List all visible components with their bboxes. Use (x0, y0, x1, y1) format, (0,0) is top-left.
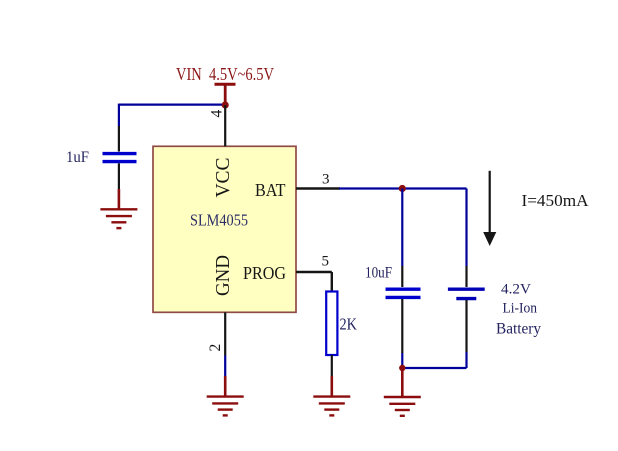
resistor R1 2K (326, 292, 337, 356)
pin 2 wire GND (224, 312, 226, 396)
wire battery to bottom net (465, 300, 467, 368)
wire C1 to ground (118, 163, 120, 209)
svg-text:PROG: PROG (243, 263, 286, 283)
wire BAT net horizontal (339, 187, 467, 189)
junction bottom net (399, 365, 405, 371)
pin 5 wire PROG (296, 272, 332, 292)
wire R1 to ground (331, 355, 333, 397)
wire to capacitor C1 (118, 104, 120, 152)
wire VIN horizontal (119, 103, 225, 105)
battery BT1 plates (448, 289, 485, 298)
current arrow (483, 171, 496, 246)
pin 3 wire BAT (296, 187, 340, 189)
svg-text:1uF: 1uF (66, 149, 89, 166)
ground GND2 (207, 397, 244, 416)
junction VIN/pin4 (222, 101, 229, 108)
junction BAT/C2 (399, 185, 406, 192)
svg-text:Li-Ion: Li-Ion (503, 301, 538, 317)
ground GND4 (313, 397, 350, 416)
pin 4 wire (224, 105, 226, 146)
wire BAT down to battery (465, 189, 467, 288)
svg-text:2K: 2K (340, 315, 358, 334)
svg-text:4: 4 (209, 110, 226, 118)
svg-text:SLM4055: SLM4055 (190, 211, 248, 230)
svg-text:5: 5 (322, 254, 330, 270)
svg-text:I=450mA: I=450mA (522, 191, 590, 210)
wire C2 to bottom net (401, 299, 403, 368)
svg-text:10uF: 10uF (365, 265, 392, 282)
wire BAT down to C2 (401, 189, 403, 288)
svg-text:Battery: Battery (496, 321, 541, 338)
wire bottom net horizontal (402, 367, 466, 369)
capacitor C1 1uF (103, 154, 137, 162)
svg-text:VIN 4.5V~6.5V: VIN 4.5V~6.5V (176, 64, 274, 84)
svg-text:VCC: VCC (212, 158, 234, 198)
svg-text:3: 3 (322, 172, 330, 188)
svg-text:BAT: BAT (255, 180, 286, 200)
power bar VIN (215, 84, 236, 103)
svg-text:2: 2 (207, 344, 224, 352)
ground GND3 (384, 397, 421, 416)
svg-text:GND: GND (212, 255, 234, 296)
wire bottom net to ground (401, 368, 404, 397)
svg-text:4.2V: 4.2V (501, 282, 531, 298)
capacitor C2 10uF (386, 289, 421, 297)
ground GND1 (100, 209, 137, 228)
op IC U1 SLM4055 body (153, 146, 296, 312)
